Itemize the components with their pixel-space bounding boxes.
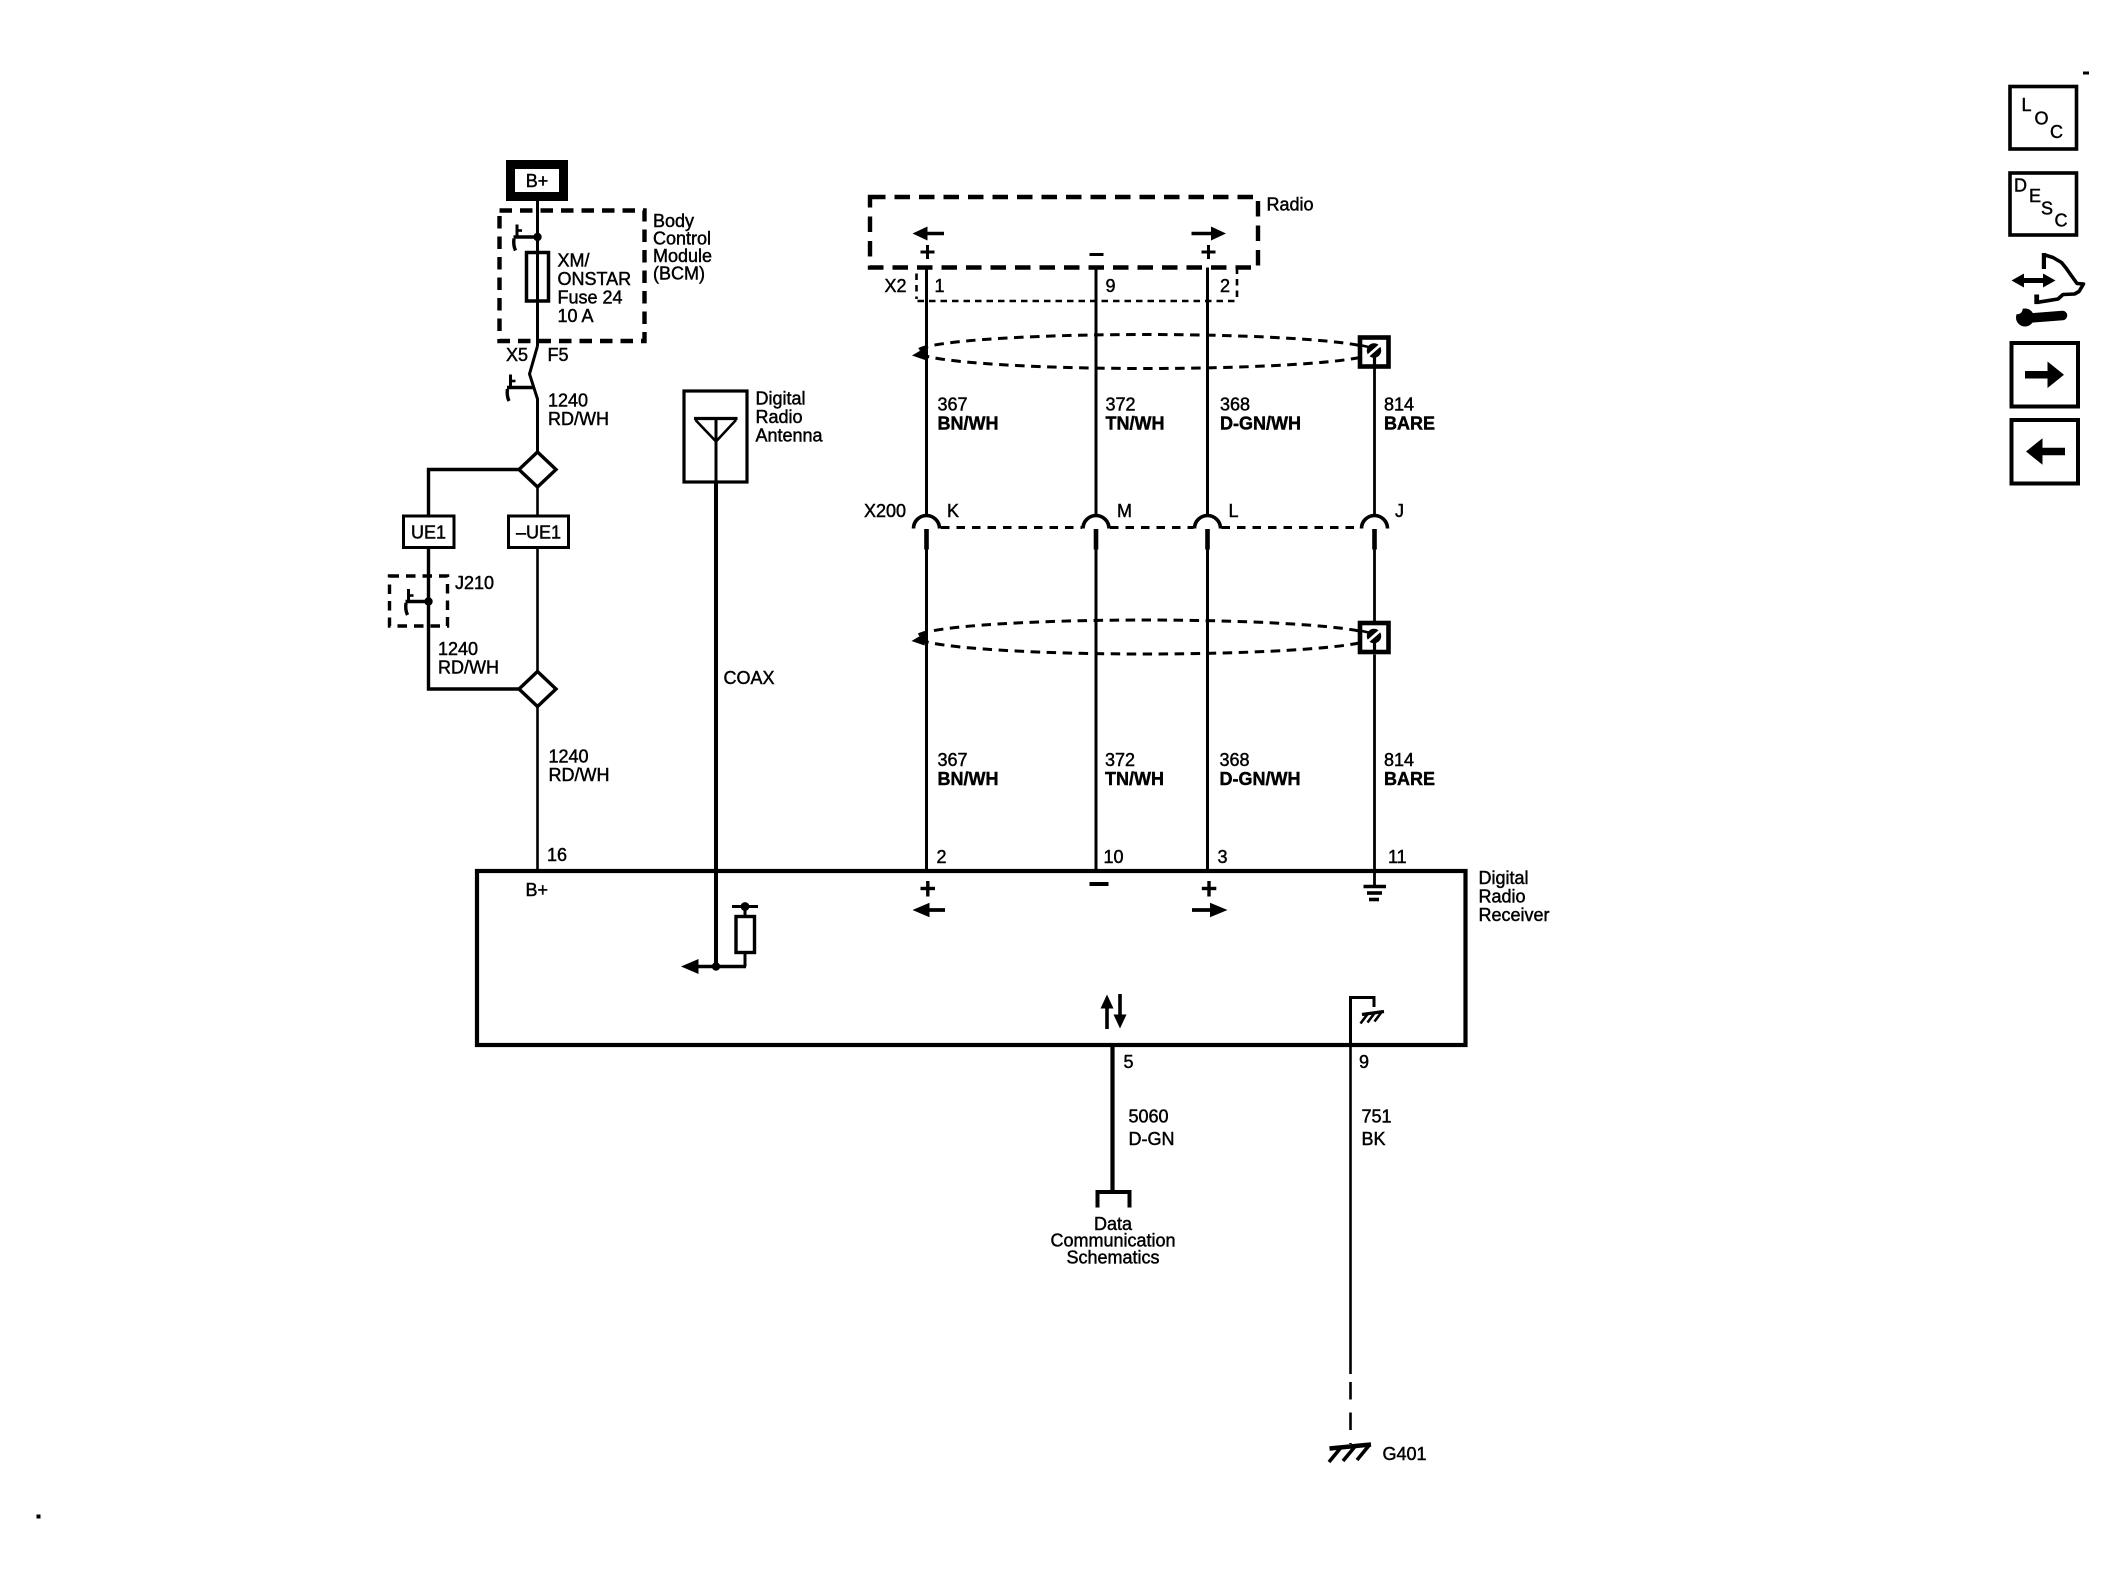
svg-text:TN/WH: TN/WH <box>1106 414 1165 434</box>
svg-text:X5: X5 <box>506 345 528 365</box>
svg-text:(BCM): (BCM) <box>653 264 705 284</box>
svg-text:BN/WH: BN/WH <box>938 769 999 789</box>
digital radio antenna U1 <box>684 391 747 482</box>
stray mark top right <box>2083 72 2089 75</box>
connector X200 terminal J <box>1362 516 1388 550</box>
label 368 D-GN/WH lower <box>1220 750 1301 789</box>
data link arrows pin 5 internal <box>1101 994 1127 1029</box>
svg-text:J210: J210 <box>455 573 494 593</box>
connector X200 label <box>864 501 906 521</box>
svg-text:5060: 5060 <box>1129 1107 1169 1127</box>
shield ellipse upper <box>912 335 1375 369</box>
svg-text:814: 814 <box>1384 750 1414 770</box>
wire UE1 through J210 to splice <box>429 548 520 690</box>
receiver polarity plus left <box>921 881 936 897</box>
connector hook X5 bottom <box>507 375 534 402</box>
pin 16 <box>547 845 567 865</box>
radio output arrow right <box>1192 227 1227 241</box>
svg-text:BN/WH: BN/WH <box>938 414 999 434</box>
svg-text:Radio: Radio <box>1479 887 1526 907</box>
pin 9 (receiver bottom) <box>1359 1052 1369 1072</box>
svg-text:9: 9 <box>1106 276 1116 296</box>
radio polarity plus right <box>1202 245 1216 259</box>
svg-text:E: E <box>2029 186 2041 206</box>
svg-text:2: 2 <box>1220 276 1230 296</box>
stray mark bottom left <box>37 1515 41 1519</box>
terminal J label <box>1395 501 1404 521</box>
svg-text:Radio: Radio <box>756 407 803 427</box>
svg-text:ONSTAR: ONSTAR <box>558 269 632 289</box>
svg-text:2: 2 <box>937 847 947 867</box>
svg-text:814: 814 <box>1384 395 1414 415</box>
splice diamond upper <box>519 452 556 487</box>
svg-text:367: 367 <box>938 750 968 770</box>
fuse label <box>558 251 632 327</box>
svg-text:D: D <box>2014 176 2027 196</box>
wire jog through connector X5 <box>530 346 538 399</box>
svg-text:BARE: BARE <box>1384 414 1435 434</box>
wire 751 BK <box>1349 1045 1352 1374</box>
earth ground pin 11 internal <box>1364 871 1387 900</box>
radio polarity plus left <box>921 245 935 259</box>
svg-text:5: 5 <box>1124 1052 1134 1072</box>
coax wire <box>714 482 718 967</box>
svg-text:L: L <box>2022 95 2032 115</box>
svg-text:–UE1: –UE1 <box>516 523 561 543</box>
label 372 TN/WH lower <box>1105 750 1164 789</box>
digital radio receiver box U2 <box>477 871 1466 1045</box>
wire 368 D-GN/WH lower <box>1206 549 1209 871</box>
label 367 BN/WH lower <box>938 750 999 789</box>
receiver polarity minus <box>1090 882 1109 886</box>
receiver label <box>1479 868 1550 925</box>
radio polarity minus <box>1090 253 1104 256</box>
svg-text:D-GN/WH: D-GN/WH <box>1220 414 1301 434</box>
svg-text:D-GN: D-GN <box>1129 1129 1175 1149</box>
label 814 BARE upper <box>1384 395 1435 434</box>
pin 11 (receiver) <box>1388 847 1407 867</box>
pin 5 <box>1124 1052 1134 1072</box>
fuse F5 XM/ONSTAR Fuse 24 10A <box>527 253 549 302</box>
svg-text:RD/WH: RD/WH <box>549 765 610 785</box>
wire 368 D-GN/WH upper <box>1206 268 1209 517</box>
label 1240 RD/WH left branch <box>438 639 499 678</box>
pin 2 (receiver) <box>937 847 947 867</box>
wire 751 BK dashed continuation <box>1349 1382 1352 1444</box>
wire 814 BARE upper <box>1373 369 1376 517</box>
connector X2 dashed outline <box>917 268 1238 302</box>
svg-text:O: O <box>2035 109 2049 129</box>
connector hook J210 <box>406 589 429 615</box>
antenna label <box>756 389 824 446</box>
terminal M label <box>1117 501 1132 521</box>
connector hook X5 top <box>514 225 538 251</box>
svg-text:10 A: 10 A <box>558 306 594 326</box>
connector labels X5 F5 <box>506 345 569 365</box>
label 367 BN/WH upper <box>938 395 999 434</box>
wire splice to UE1 <box>429 470 520 517</box>
terminal K label <box>947 501 959 521</box>
svg-text:751: 751 <box>1362 1107 1392 1127</box>
shield drain connector upper <box>1360 338 1389 367</box>
svg-text:3: 3 <box>1218 847 1228 867</box>
svg-text:J: J <box>1395 501 1404 521</box>
svg-text:11: 11 <box>1388 847 1407 867</box>
svg-text:1240: 1240 <box>549 747 589 767</box>
inline splice J210 dashed box <box>390 576 448 626</box>
junction dot J210 <box>424 597 432 605</box>
pin 3 (receiver) <box>1218 847 1228 867</box>
svg-text:RD/WH: RD/WH <box>438 658 499 678</box>
label 1240 RD/WH lower <box>549 747 610 786</box>
svg-text:M: M <box>1117 501 1132 521</box>
svg-text:COAX: COAX <box>724 668 775 688</box>
wire 814 BARE lower <box>1373 549 1376 871</box>
svg-text:372: 372 <box>1106 395 1136 415</box>
svg-text:B+: B+ <box>526 171 549 191</box>
splice diamond lower <box>519 672 556 707</box>
BCM label <box>653 211 712 284</box>
svg-text:Fuse 24: Fuse 24 <box>558 288 623 308</box>
connector X200 terminal M <box>1083 516 1109 550</box>
svg-text:1240: 1240 <box>438 639 478 659</box>
svg-text:Schematics: Schematics <box>1066 1248 1159 1268</box>
data communication schematics label <box>1050 1214 1175 1268</box>
shield drain connector lower <box>1360 623 1389 652</box>
svg-text:D-GN/WH: D-GN/WH <box>1220 769 1301 789</box>
svg-text:X2: X2 <box>885 276 907 296</box>
label 751 BK <box>1362 1107 1392 1150</box>
wire B+ to fuse F5 <box>536 200 539 346</box>
svg-text:16: 16 <box>547 845 567 865</box>
icon service information (hand with wrench) <box>2012 253 2084 327</box>
svg-text:XM/: XM/ <box>558 251 590 271</box>
wire 367 BN/WH upper <box>925 268 928 517</box>
label 1240 RD/WH upper <box>548 391 609 430</box>
label 5060 D-GN <box>1129 1107 1175 1150</box>
coax termination resistor <box>732 902 758 966</box>
radio output arrow left <box>913 227 945 241</box>
label 814 BARE lower <box>1384 750 1435 789</box>
connector X200 terminal K <box>914 516 940 550</box>
svg-text:Digital: Digital <box>756 389 806 409</box>
connector -UE1 <box>509 516 569 548</box>
svg-text:G401: G401 <box>1383 1444 1427 1464</box>
connector X200 dashed line <box>941 526 1361 529</box>
svg-text:L: L <box>1229 501 1239 521</box>
svg-text:F5: F5 <box>548 345 569 365</box>
wire splice to receiver pin 16 <box>536 707 539 872</box>
body control module BCM dashed box <box>500 211 645 342</box>
svg-text:Radio: Radio <box>1267 195 1314 215</box>
connector X2 label <box>885 276 907 296</box>
svg-text:K: K <box>947 501 959 521</box>
svg-text:C: C <box>2050 122 2063 142</box>
svg-text:367: 367 <box>938 395 968 415</box>
pin 2 (X2) <box>1220 276 1230 296</box>
svg-text:S: S <box>2041 199 2053 219</box>
G401 label <box>1383 1444 1427 1464</box>
data communication connector <box>1098 1192 1130 1208</box>
shield ellipse lower <box>912 620 1375 654</box>
pin 10 (receiver) <box>1104 847 1124 867</box>
coax label <box>724 668 775 688</box>
connector X200 terminal L <box>1195 516 1221 550</box>
svg-text:BK: BK <box>1362 1129 1386 1149</box>
power symbol B+ <box>511 165 564 197</box>
icon back arrow button <box>2012 420 2079 484</box>
receiver arrow right <box>1192 903 1228 917</box>
svg-text:Digital: Digital <box>1479 868 1529 888</box>
icon LOC button <box>2010 87 2077 150</box>
radio label <box>1267 195 1314 215</box>
wire 367 BN/WH lower <box>925 549 928 871</box>
wire 372 TN/WH upper <box>1095 268 1098 517</box>
wire 5060 D-GN <box>1110 1045 1114 1190</box>
svg-text:UE1: UE1 <box>411 523 446 543</box>
fuse block connector UE1 <box>404 516 455 548</box>
J210 label <box>455 573 494 593</box>
icon DESC button <box>2010 173 2077 235</box>
radio dashed box <box>870 197 1258 268</box>
svg-text:Receiver: Receiver <box>1479 905 1550 925</box>
svg-text:RD/WH: RD/WH <box>548 409 609 429</box>
svg-text:B+: B+ <box>526 880 549 900</box>
chassis ground pin 9 internal <box>1351 998 1385 1044</box>
svg-text:TN/WH: TN/WH <box>1105 769 1164 789</box>
terminal L label <box>1229 501 1239 521</box>
receiver arrow left <box>913 903 946 917</box>
pin 1 <box>935 276 945 296</box>
svg-text:X200: X200 <box>864 501 906 521</box>
label 368 D-GN/WH upper <box>1220 395 1301 434</box>
svg-text:Antenna: Antenna <box>756 426 824 446</box>
svg-text:1240: 1240 <box>548 391 588 411</box>
wire splice1 to -UE1 <box>536 487 539 516</box>
label 372 TN/WH upper <box>1106 395 1165 434</box>
svg-text:9: 9 <box>1359 1052 1369 1072</box>
wire fuse output 1240 RD/WH <box>536 398 539 453</box>
wire -UE1 to splice lower <box>536 548 539 673</box>
ground G401 <box>1329 1445 1371 1463</box>
svg-text:C: C <box>2055 211 2068 231</box>
wire 372 TN/WH lower <box>1095 549 1098 871</box>
icon next arrow button <box>2012 343 2079 407</box>
coax termination arrow <box>681 959 746 974</box>
svg-text:372: 372 <box>1105 750 1135 770</box>
receiver B+ pin label <box>526 880 549 900</box>
svg-text:368: 368 <box>1220 750 1250 770</box>
junction dot at fuse input <box>533 233 541 241</box>
pin 9 (X2) <box>1106 276 1116 296</box>
svg-text:1: 1 <box>935 276 945 296</box>
receiver polarity plus right <box>1202 881 1217 897</box>
svg-text:10: 10 <box>1104 847 1124 867</box>
svg-text:BARE: BARE <box>1384 769 1435 789</box>
svg-text:368: 368 <box>1220 395 1250 415</box>
